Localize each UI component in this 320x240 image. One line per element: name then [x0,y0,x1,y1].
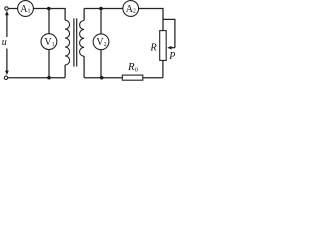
wire step to wiper rail [163,19,175,47]
wire primary top vertical [64,9,66,21]
source u arrow line lower [6,49,8,74]
terminal T2 (bottom-left input) [4,76,7,79]
transformer core line left [73,18,75,66]
wire vertical: node to V1 top [48,9,50,34]
wiper arrow shaft P [170,47,175,49]
wire primary bottom vertical [64,65,66,78]
resistor R body [160,31,167,61]
resistor R0 body [122,75,143,80]
source arrow head up [5,11,9,15]
svg-text:P: P [168,51,175,62]
wiper arrow head P [167,46,171,50]
svg-text:R: R [149,43,157,54]
wire secondary top vertical [83,9,85,21]
wire bottom-right rail [84,77,163,79]
ammeter A1 circle [18,1,34,17]
voltmeter V2 circle [93,34,109,50]
transformer secondary coil L2 (4 bumps) [80,21,85,57]
wire top: A2 to right corner, down to R [139,9,163,31]
wire top: A1 to primary corner [33,8,65,10]
transformer core line right [76,18,78,66]
node junction dot top V2 [99,7,103,11]
wire bottom-left rail [8,77,65,79]
terminal T1 (top-left input) [5,7,8,10]
source arrow head down [5,71,9,75]
source u arrow line upper [6,13,8,37]
wire vertical: node to V2 top [100,9,102,35]
svg-text:u: u [2,37,7,48]
wire R bottom vertical [162,60,164,77]
transformer primary coil L1 (5 bumps) [65,20,70,65]
wire vertical: V1 bottom to bottom rail [48,50,50,78]
wire top-left: terminal to A1 [8,8,17,10]
wire secondary top rail to A2 [84,8,123,10]
voltmeter V1 circle [41,34,57,50]
node junction dot bottom V1 [47,76,51,80]
ammeter A2 circle [123,1,139,17]
node junction dot bottom V2 [100,76,104,80]
wire secondary bottom vertical [83,56,85,77]
wire vertical: V2 bottom to bottom rail [100,50,102,78]
node junction dot top A1-V1 [47,7,51,11]
